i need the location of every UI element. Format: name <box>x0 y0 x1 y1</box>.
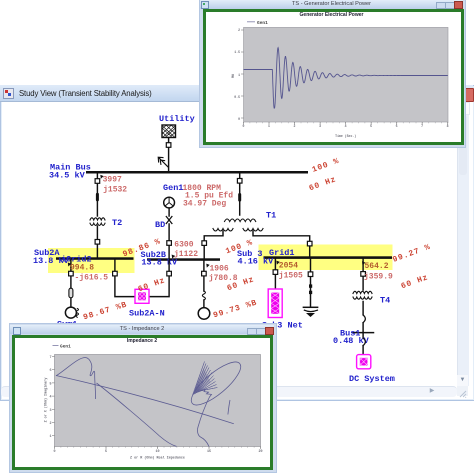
svg-text:2: 2 <box>294 124 296 128</box>
svg-text:20: 20 <box>258 450 262 454</box>
label 564.2 j359.9 <box>365 262 389 271</box>
svg-text:T4: T4 <box>380 296 390 306</box>
transformer T2 <box>90 218 122 228</box>
svg-text:0.5: 0.5 <box>234 95 240 99</box>
corner grip <box>457 386 468 396</box>
wire Sub2B to Sub2A-N <box>149 261 169 297</box>
node Sub2B side <box>167 271 172 276</box>
wire Sub3 to Sub3 Net <box>274 259 276 289</box>
svg-text:Sub2A-N: Sub2A-N <box>129 309 165 319</box>
wire T2 to Sub2A <box>96 226 98 257</box>
svg-text:60 Hz: 60 Hz <box>400 273 430 291</box>
svg-text:34.5 kV: 34.5 kV <box>49 171 86 181</box>
wire Sub2A to Sym1 <box>70 260 72 307</box>
svg-text:7: 7 <box>49 356 51 360</box>
svg-text:3: 3 <box>49 408 51 412</box>
wire Gen1 to Sub2B <box>168 208 170 258</box>
svg-text:j1122: j1122 <box>174 250 198 259</box>
label 6300 j1122 <box>174 241 198 259</box>
breaker CB T1 (closed) <box>238 193 241 202</box>
yellow highlight Sub2A <box>48 248 135 273</box>
svg-text:3997: 3997 <box>103 175 122 184</box>
node utility <box>166 143 171 148</box>
transformer T1 (3-winding) <box>213 211 276 232</box>
svg-text:Z or R (Ohm) Real Impedance: Z or R (Ohm) Real Impedance <box>130 455 185 460</box>
svg-text:34.97 Deg: 34.97 Deg <box>183 200 226 209</box>
contactor squiggle Ind1 branch <box>202 291 205 300</box>
svg-text:Gen1: Gen1 <box>60 343 71 349</box>
svg-text:j359.9: j359.9 <box>364 273 393 282</box>
motor Ind1 <box>198 308 210 320</box>
node T1-Sub2B <box>202 241 207 246</box>
svg-text:MW: MW <box>231 74 235 78</box>
generator Gen1 <box>163 183 183 208</box>
node Sub3-net <box>273 270 278 275</box>
svg-text:100 %: 100 % <box>311 157 341 175</box>
svg-text:3: 3 <box>319 124 321 128</box>
svg-text:5: 5 <box>370 124 372 128</box>
fuse Sym1 branch <box>69 288 73 298</box>
svg-text:DC System: DC System <box>349 374 395 384</box>
svg-text:2: 2 <box>49 422 51 426</box>
svg-text:4.16 kV: 4.16 kV <box>238 257 275 267</box>
svg-text:564.2: 564.2 <box>365 262 389 271</box>
svg-text:Gen1: Gen1 <box>163 183 183 193</box>
study view close button (right, mostly hidden) <box>464 88 474 102</box>
svg-text:BD: BD <box>155 220 165 230</box>
svg-text:4: 4 <box>345 124 347 128</box>
wire T1 right secondary to Sub 3 <box>253 231 310 256</box>
svg-text:T1: T1 <box>266 211 276 221</box>
fuse above Bus1 <box>363 315 365 323</box>
green plot frame <box>203 9 464 145</box>
capacitor to ground <box>303 307 317 317</box>
wire T1 left secondary to Sub2B <box>204 231 223 258</box>
svg-text:1906: 1906 <box>210 264 229 273</box>
flow arrow into Sub2B <box>172 255 176 259</box>
wire Sub3 to T4 <box>362 259 364 290</box>
svg-text:98.67 %B: 98.67 %B <box>82 300 128 322</box>
node Sub2A side <box>113 271 118 276</box>
switch marks cap branch <box>309 284 312 287</box>
svg-text:4: 4 <box>49 395 51 399</box>
svg-text:15: 15 <box>207 450 211 454</box>
svg-text:0: 0 <box>53 450 55 454</box>
study view title bar <box>0 85 473 102</box>
wire Sub2A to Sub2A-N <box>115 260 135 297</box>
network Sub3 Net <box>262 289 303 331</box>
label 2054 j1505 <box>279 261 298 270</box>
svg-text:j1532: j1532 <box>103 186 127 195</box>
svg-text:Grid1: Grid1 <box>269 248 295 258</box>
label 3997 j1532 <box>103 175 128 194</box>
switch BD (open, X) <box>155 217 172 231</box>
fault arrow at utility feeder <box>158 157 168 167</box>
wire T4 to Bus1 <box>362 302 364 332</box>
bus Bus1 <box>333 329 374 347</box>
svg-text:994.8: 994.8 <box>70 263 94 272</box>
horizontal scrollbar <box>1 386 457 397</box>
node Gen1-Sub2B <box>167 241 172 246</box>
node T1-Sub3 <box>307 241 312 246</box>
svg-text:99.27 %: 99.27 % <box>392 243 433 265</box>
converter DC System <box>349 355 395 384</box>
bus Sub 3 <box>237 248 392 267</box>
svg-text:99.73 %B: 99.73 %B <box>212 298 258 320</box>
wire Bus1 to DC System <box>362 333 364 355</box>
node Sub2A-Sym1 <box>69 271 74 276</box>
bus Sub2A <box>33 248 134 266</box>
network Sub2A-N <box>129 289 165 318</box>
svg-text:60 Hz: 60 Hz <box>137 276 167 294</box>
label 1906 j780.8 <box>209 264 238 283</box>
svg-text:1: 1 <box>49 435 51 439</box>
svg-text:5: 5 <box>49 382 51 386</box>
label 994.8 <box>70 263 94 272</box>
machine Sym1 <box>57 307 79 329</box>
wire Sub2B to Ind1 <box>203 261 205 308</box>
wire Sub3 to capacitor <box>310 259 312 307</box>
svg-text:60 Hz: 60 Hz <box>308 175 338 193</box>
wire main bus to T2 <box>96 174 98 217</box>
svg-text:0: 0 <box>243 124 245 128</box>
svg-text:5: 5 <box>105 450 107 454</box>
svg-text:7: 7 <box>421 124 423 128</box>
bus Sub2B <box>141 250 221 268</box>
svg-text:Gen1: Gen1 <box>257 20 268 26</box>
transformer T4 <box>353 291 390 305</box>
svg-text:Z or X (Ohm) Imaginary: Z or X (Ohm) Imaginary <box>44 377 49 422</box>
vertical scrollbar <box>457 102 469 386</box>
svg-text:Time (Sec.): Time (Sec.) <box>335 134 356 138</box>
svg-text:2: 2 <box>238 28 240 32</box>
svg-text:2054: 2054 <box>279 261 298 270</box>
wire main bus to T1 <box>239 174 241 216</box>
svg-text:8: 8 <box>447 124 449 128</box>
utility U1 <box>159 114 195 138</box>
node T2-Sub2A <box>95 240 100 245</box>
label Gen1 values <box>183 184 234 209</box>
yellow highlight Grid1 <box>259 245 393 271</box>
fuse below Bus1 <box>363 338 365 346</box>
bus Main Bus <box>49 163 308 181</box>
svg-text:6300: 6300 <box>174 241 193 250</box>
svg-text:6: 6 <box>396 124 398 128</box>
svg-text:1: 1 <box>268 124 270 128</box>
svg-text:j1505: j1505 <box>279 272 303 281</box>
svg-text:6: 6 <box>49 369 51 373</box>
wire utility to main bus <box>168 138 170 172</box>
svg-text:13.8 kV: 13.8 kV <box>141 258 178 268</box>
svg-text:1.5: 1.5 <box>234 50 240 54</box>
svg-text:Utility: Utility <box>159 114 195 124</box>
node Sub2B-Ind1 <box>202 271 207 276</box>
node main-T1 <box>237 179 242 184</box>
green plot frame <box>12 335 273 470</box>
node main-T2 <box>95 179 100 184</box>
node Sub3-T4 <box>361 272 366 277</box>
node Sub3-cap <box>308 272 313 277</box>
svg-text:-j616.5: -j616.5 <box>75 273 109 282</box>
svg-text:0: 0 <box>238 117 240 121</box>
breaker CB T2 (closed) <box>96 193 99 202</box>
rotated labels main bus <box>82 157 432 323</box>
svg-text:T2: T2 <box>112 218 122 228</box>
svg-text:10: 10 <box>155 450 159 454</box>
svg-text:1: 1 <box>238 73 240 77</box>
